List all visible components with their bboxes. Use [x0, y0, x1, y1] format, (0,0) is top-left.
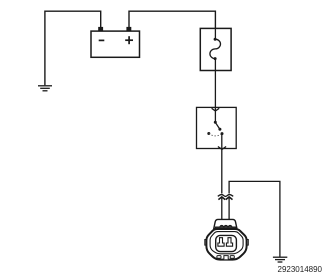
switch alternate contact node [207, 132, 210, 135]
sensor connector B1: left side tab [205, 240, 207, 246]
sensor connector B1: pin 2 [226, 238, 232, 247]
sensor connector B1: wire cap [214, 219, 237, 228]
switch lever [215, 122, 220, 129]
sensor connector B1: body octagon [206, 229, 246, 260]
svg-text:2923014890: 2923014890 [278, 265, 323, 274]
wire break wave across both wires [218, 195, 233, 197]
node fuse top [214, 38, 217, 41]
label + [125, 36, 133, 44]
wire fuse to switch [214, 59, 216, 123]
sensor connector B1: right side tab [246, 240, 248, 246]
wire break chevron left [218, 197, 225, 200]
fuse lead in [214, 28, 216, 39]
fuse element [210, 39, 221, 58]
arrow into switch [212, 108, 220, 111]
battery positive terminal [126, 27, 131, 31]
battery negative terminal [98, 27, 103, 31]
switch pivot node [214, 121, 217, 124]
sensor connector B1: crimp band [215, 225, 236, 229]
sensor connector B1: face seal [216, 235, 237, 251]
sensor connector B1: bottom left foot [217, 256, 221, 259]
arrow out of switch [218, 147, 226, 150]
sensor connector B1: inner outline [210, 232, 243, 254]
battery G1 [91, 31, 140, 57]
switch lever end node [218, 128, 221, 131]
switch output contact node [221, 132, 224, 135]
sensor connector B1: bottom right foot [230, 256, 234, 259]
wire switch to sensor connector [221, 133, 223, 193]
sensor connector B1: bottom keyway notch [224, 256, 228, 260]
ground (battery negative) [38, 86, 52, 91]
sensor connector B1: pin 1 [218, 238, 224, 247]
label - [99, 39, 105, 41]
fuse F1 box [200, 28, 231, 70]
wire sensor return to ground (right branch) [229, 181, 280, 257]
wire battery negative to ground [45, 11, 101, 85]
switch travel dashed arc [209, 134, 222, 136]
switch S1 box [197, 107, 237, 148]
ground (sensor return) [273, 257, 287, 262]
node fuse bottom [214, 57, 217, 60]
wire break chevron right [226, 197, 233, 200]
wire battery positive to fuse [129, 11, 215, 28]
